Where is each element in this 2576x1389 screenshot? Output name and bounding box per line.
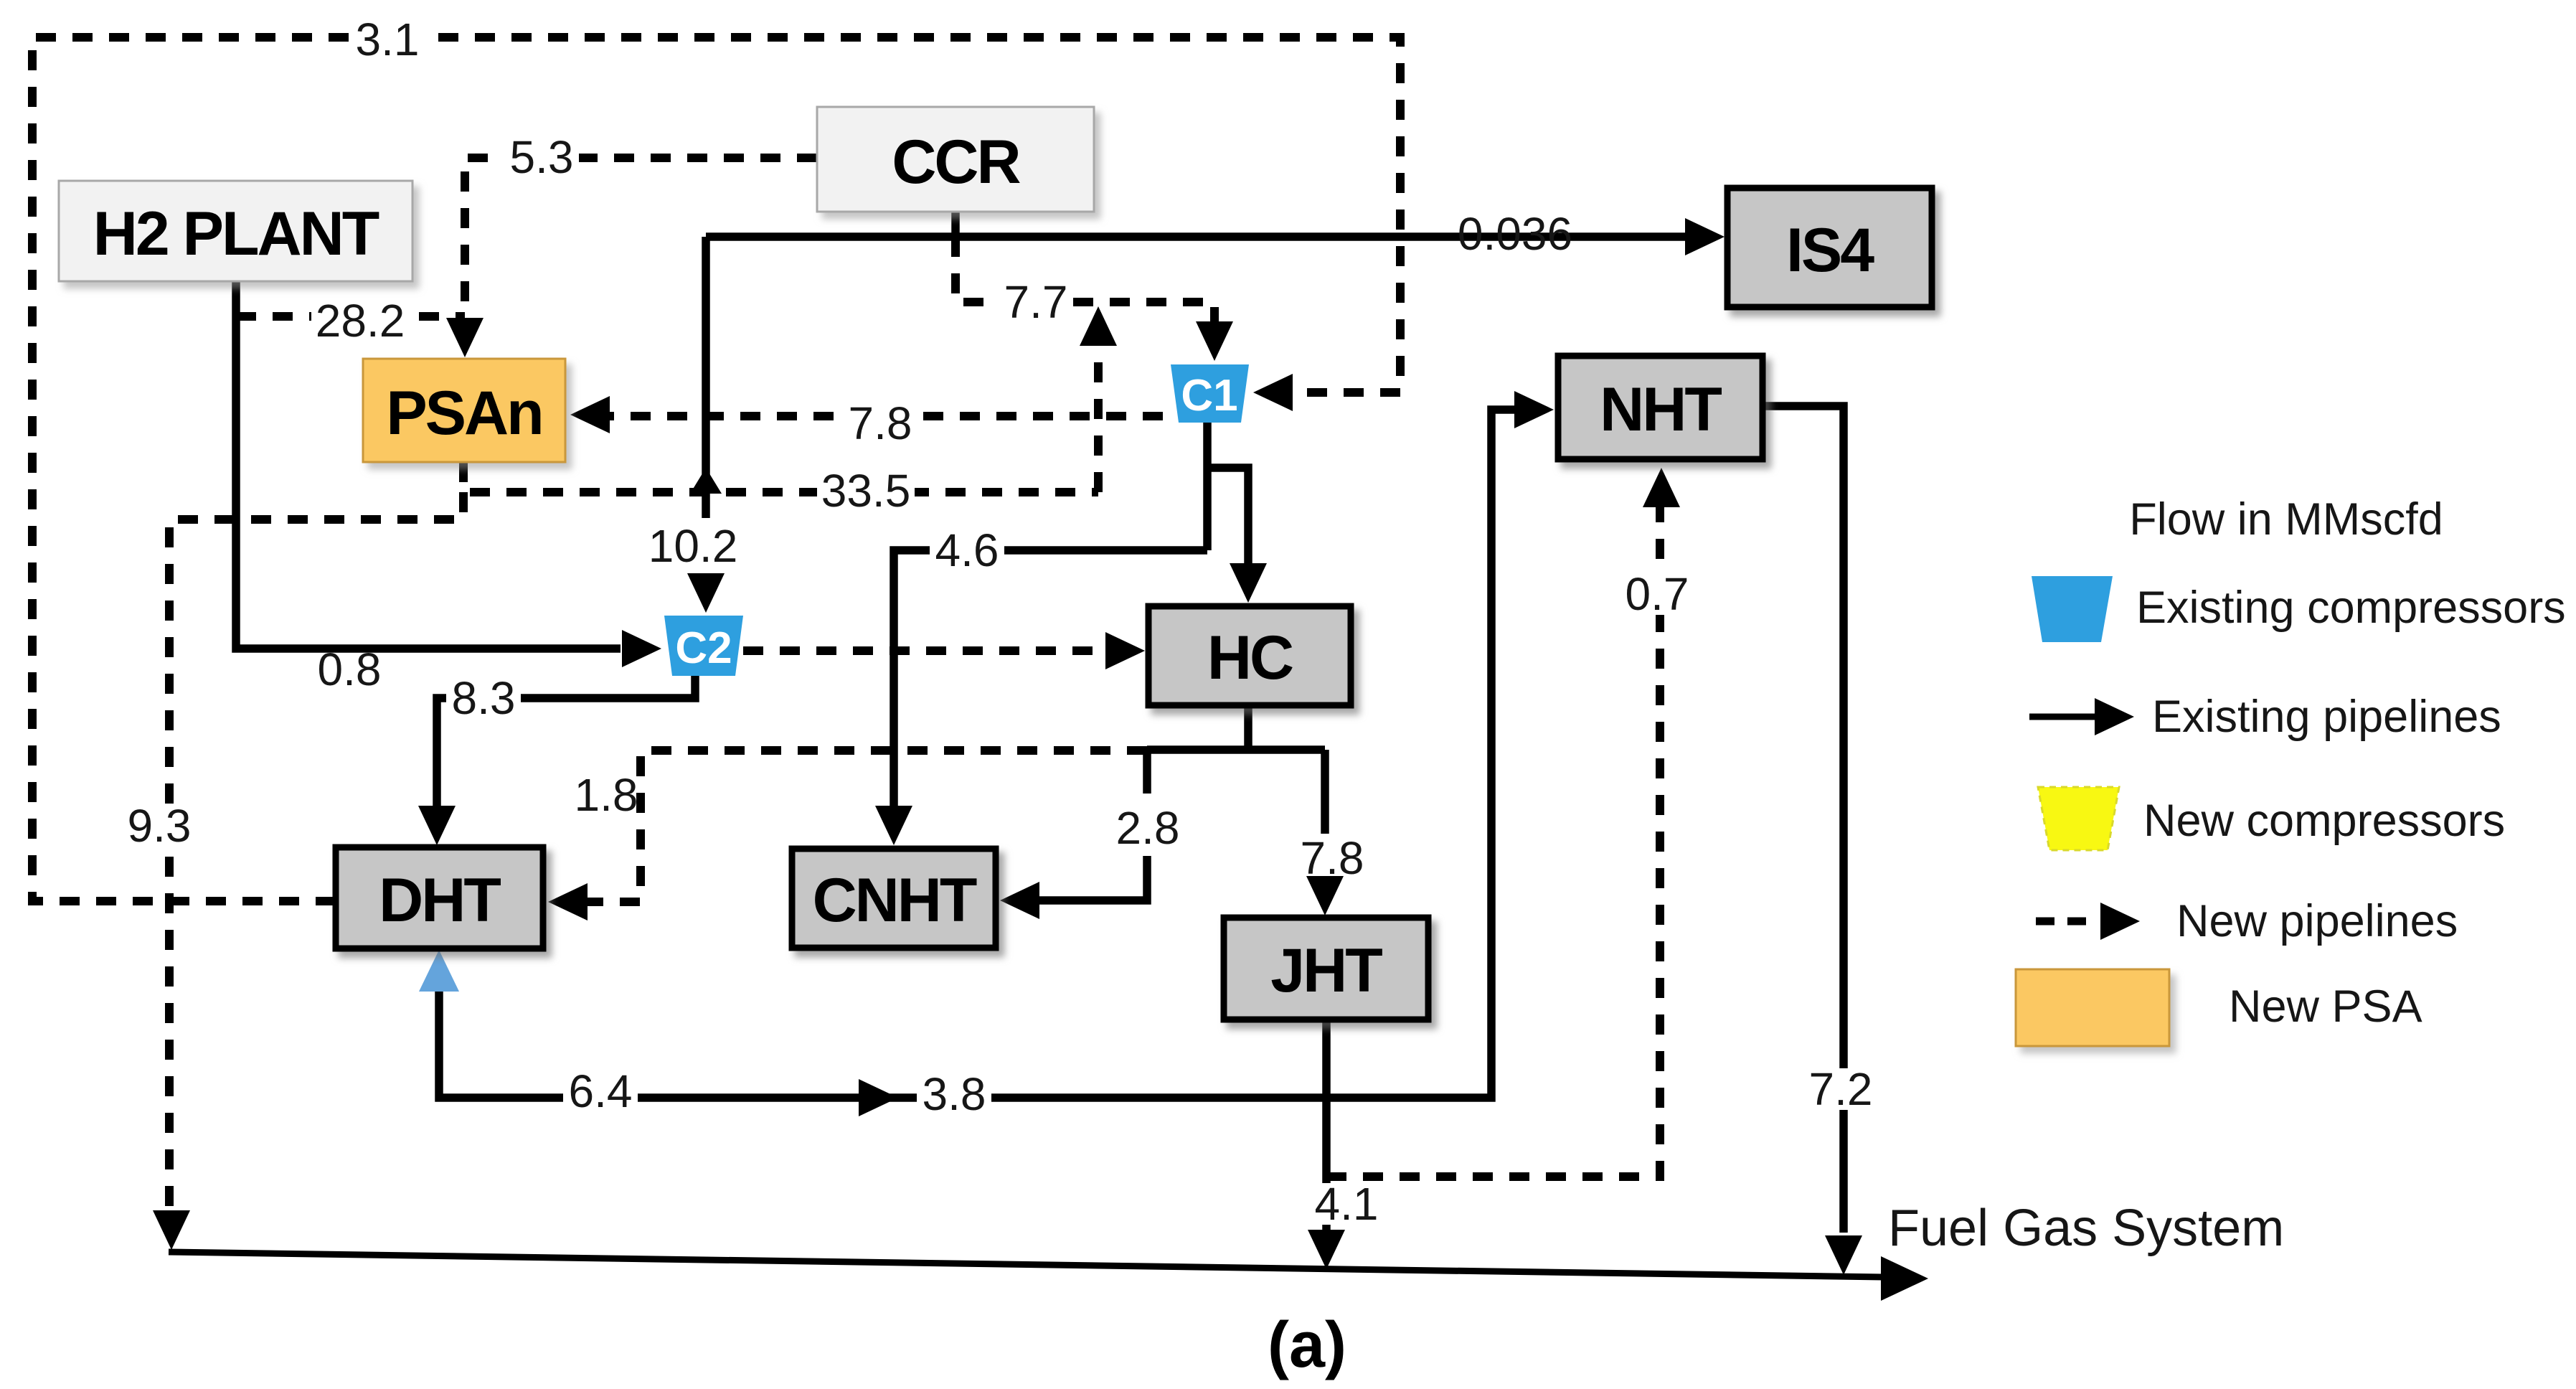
wire dashed 9.3: PSAn bottom, left, down to fuel gas line (169, 492, 463, 1209)
svg-text:0.8: 0.8 (318, 644, 382, 695)
compressor C2 (664, 616, 743, 676)
label 10.2 (644, 520, 742, 572)
wire dashed C2 to HC (743, 646, 1119, 655)
box H2 PLANT (59, 181, 412, 281)
junction hop at 10.2 line (690, 468, 722, 494)
arrowhead mid-run 3.8 junction (859, 1079, 898, 1116)
svg-text:7.2: 7.2 (1809, 1063, 1873, 1115)
box CNHT (792, 849, 996, 948)
arrowhead into CNHT top (875, 806, 912, 845)
wire solid 4.6: across to CNHT drop (894, 550, 1207, 814)
wire dashed 28.2: H2 PLANT line to 5.3 vertical (236, 312, 465, 321)
arrowhead into IS4 left (1685, 218, 1725, 255)
svg-text:Flow in MMscfd: Flow in MMscfd (2129, 494, 2443, 545)
arrowhead into CNHT right (1000, 882, 1039, 919)
svg-text:Fuel Gas System: Fuel Gas System (1888, 1200, 2284, 1257)
svg-text:H2 PLANT: H2 PLANT (93, 199, 379, 268)
label 7.8 first (843, 397, 917, 449)
wire dashed 33.5 riser with up arrow at 7.7 line (1094, 337, 1103, 492)
svg-text:8.3: 8.3 (452, 672, 516, 724)
svg-text:3.8: 3.8 (923, 1068, 986, 1120)
arrowhead into DHT top (418, 806, 456, 845)
svg-text:Existing compressors: Existing compressors (2136, 583, 2566, 633)
label 3.8 (917, 1068, 991, 1120)
label 4.6 (930, 524, 1004, 576)
label 28.2 (311, 295, 409, 347)
wire dashed 33.5: PSAn bottom right to riser (463, 462, 1098, 492)
legend existing compressor symbol (2032, 576, 2113, 642)
label 4.1 (1309, 1178, 1384, 1230)
wire dashed 7.7: CCR bottom to C1 top (956, 237, 1214, 331)
arrowhead 4.1 down onto fuel line (1308, 1230, 1345, 1269)
svg-text:4.6: 4.6 (935, 524, 999, 576)
svg-text:DHT: DHT (379, 866, 501, 935)
label 3.1 (350, 14, 425, 65)
arrowhead into C1 top (1196, 321, 1233, 361)
legend existing pipeline symbol (2029, 714, 2102, 720)
box PSAn (363, 359, 565, 462)
svg-text:New pipelines: New pipelines (2176, 896, 2458, 946)
arrowhead into C2 left (0.8) (622, 630, 661, 667)
svg-text:7.8: 7.8 (1301, 832, 1364, 884)
label 7.7 (999, 276, 1073, 328)
arrowhead into PSAn top (446, 318, 483, 357)
svg-text:1.8: 1.8 (575, 769, 638, 821)
legend new pipeline symbol (2036, 918, 2098, 926)
arrowhead 7.2 down onto fuel line (1825, 1235, 1862, 1275)
wire solid CCR bottom stub (951, 212, 960, 237)
box IS4 (1727, 188, 1932, 307)
wire solid C1 branch to HC top (1207, 468, 1248, 572)
wire solid 6.4 / 3.8 run: DHT bottom to NHT left (439, 410, 1521, 1098)
svg-text:New compressors: New compressors (2143, 796, 2505, 846)
arrowhead fuel gas end (1881, 1256, 1928, 1301)
svg-text:NHT: NHT (1600, 375, 1722, 444)
svg-text:28.2: 28.2 (316, 295, 405, 347)
compressor C1 (1171, 364, 1249, 423)
svg-text:0.7: 0.7 (1626, 568, 1689, 620)
arrowhead into PSAn right (570, 396, 610, 433)
wire solid NHT right 7.2 drop (1763, 406, 1844, 1233)
arrowhead blue up into DHT bottom (419, 950, 459, 992)
svg-text:2.8: 2.8 (1116, 802, 1180, 854)
box CCR (817, 107, 1094, 212)
wire dashed 0.7: JHT line right, up into NHT bottom (1326, 499, 1660, 1177)
label 9.3 (122, 800, 197, 852)
wire solid main header: to IS4 (706, 232, 1693, 241)
label 8.3 (446, 672, 521, 724)
svg-text:9.3: 9.3 (128, 800, 192, 852)
svg-text:6.4: 6.4 (569, 1065, 633, 1117)
svg-text:CNHT: CNHT (813, 866, 977, 935)
wire solid 8.3: C2 bottom to DHT top (437, 676, 695, 814)
wire solid 10.2 drop to C2 (702, 237, 710, 518)
svg-text:PSAn: PSAn (386, 379, 542, 448)
wire solid H2 PLANT drop (236, 281, 621, 649)
arrowhead up below 7.7 line (1080, 306, 1117, 346)
svg-text:7.8: 7.8 (849, 397, 912, 449)
label 6.4 (563, 1065, 638, 1117)
svg-text:C2: C2 (675, 623, 732, 673)
wire dashed 1.8: HC tee left, down, into DHT right (574, 750, 1147, 902)
wire solid C1 bottom drop (1203, 423, 1212, 550)
box DHT (336, 847, 543, 948)
svg-text:5.3: 5.3 (510, 131, 574, 183)
svg-text:C1: C1 (1181, 371, 1237, 420)
arrowhead into HC top (1230, 563, 1267, 603)
arrowhead down onto fuel line (153, 1210, 190, 1250)
label 5.3 (504, 131, 579, 183)
arrowhead into JHT top (1306, 876, 1344, 915)
svg-text:7.7: 7.7 (1004, 276, 1068, 328)
arrowhead into NHT left (1514, 391, 1554, 428)
wire solid HC bottom tee (1244, 705, 1252, 750)
svg-text:JHT: JHT (1270, 936, 1382, 1005)
label 33.5 (817, 465, 915, 517)
box HC (1148, 606, 1351, 705)
wire solid fuel gas collector line (169, 1252, 1884, 1277)
svg-text:33.5: 33.5 (821, 465, 911, 517)
svg-text:CCR: CCR (892, 128, 1020, 197)
svg-text:4.1: 4.1 (1315, 1178, 1379, 1230)
label 0.7 (1620, 568, 1694, 620)
legend new PSA symbol (2016, 969, 2169, 1046)
legend new compressor symbol (2038, 787, 2119, 850)
wire dashed 7.8: C1 to PSAn right (582, 412, 1199, 420)
arrowhead into DHT right (548, 883, 588, 920)
svg-text:(a): (a) (1268, 1309, 1346, 1381)
box NHT (1558, 356, 1763, 459)
wire dashed 5.3: CCR left to PSAn top (465, 158, 817, 330)
arrowhead into HC left (1105, 632, 1145, 669)
arrowhead into C1 right (1253, 374, 1293, 411)
label 7.2 (1803, 1063, 1878, 1115)
wire solid 2.8 branch into CNHT right (1143, 750, 1151, 794)
wire solid JHT bottom drop to fuel line (1322, 1020, 1331, 1259)
svg-text:10.2: 10.2 (648, 520, 738, 572)
wire dashed 3.1 path: DHT left, up left side, across top, down right, into C1 (32, 37, 1400, 901)
svg-text:Existing pipelines: Existing pipelines (2152, 692, 2501, 742)
arrowhead into C2 top (687, 573, 725, 613)
wire solid 7.8 branch into JHT top (1321, 750, 1329, 834)
arrowhead into NHT bottom (1643, 468, 1680, 507)
svg-text:New PSA: New PSA (2229, 981, 2422, 1032)
svg-text:HC: HC (1207, 623, 1293, 692)
svg-text:IS4: IS4 (1786, 216, 1874, 285)
svg-text:3.1: 3.1 (356, 14, 420, 65)
box JHT (1224, 918, 1428, 1020)
svg-text:0.036: 0.036 (1458, 208, 1572, 260)
